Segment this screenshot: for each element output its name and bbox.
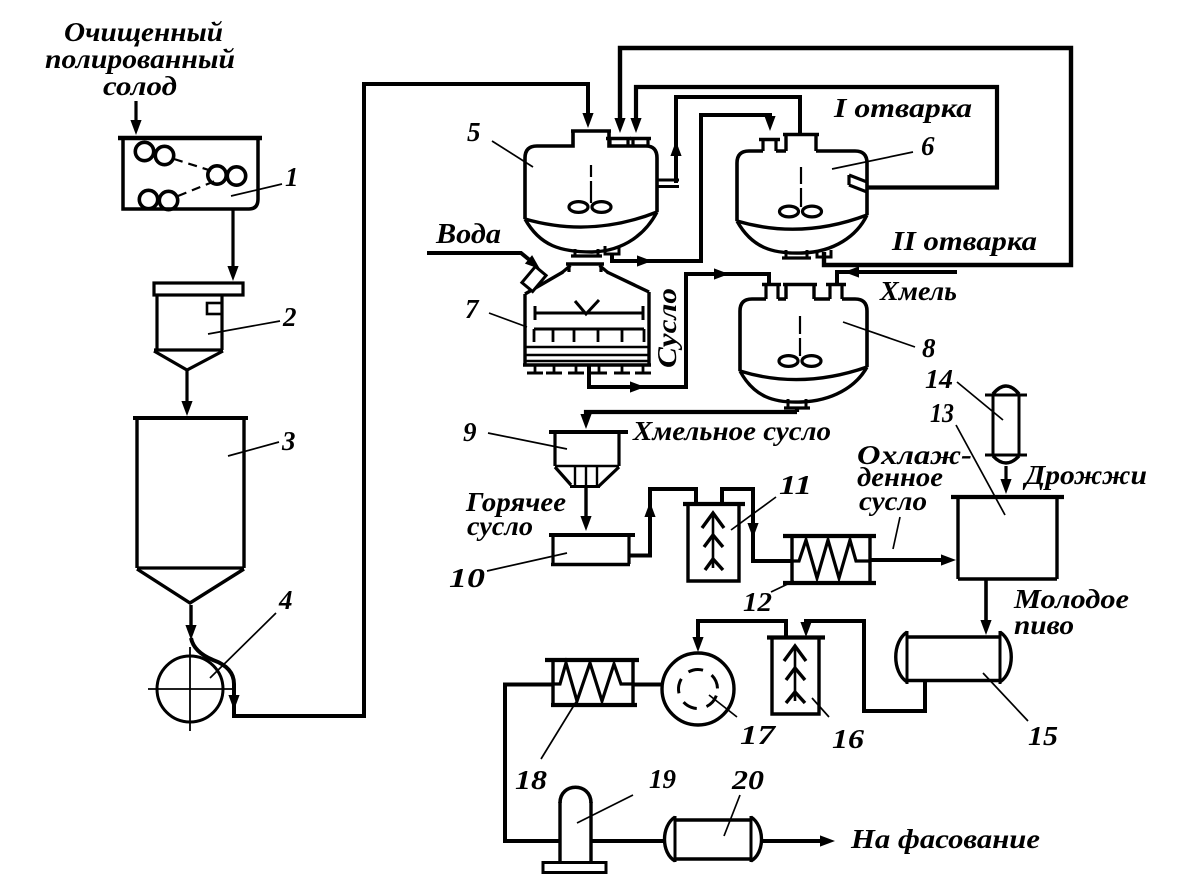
carbonator 19: [543, 787, 606, 872]
agitator of vessel 5: [569, 165, 611, 212]
label 9 with leader: [463, 417, 567, 449]
label 12 with leader: [743, 581, 794, 617]
label 18 with leader: [515, 702, 576, 795]
svg-text:полированный: полированный: [45, 44, 235, 74]
wire: II отварка loop (vessel 6 bottom to vessel 5 nozzle): [614, 48, 1071, 265]
svg-text:Сусло: Сусло: [652, 288, 682, 368]
svg-text:5: 5: [467, 117, 481, 147]
hopped wort kettle 8 body: [740, 285, 867, 409]
svg-text:Вода: Вода: [435, 219, 501, 250]
wire: vessel 5 bottom outlet up to vessel 6 left nozzle: [612, 115, 776, 267]
malt bin tank 3: [133, 418, 248, 603]
svg-text:II отварка: II отварка: [891, 226, 1037, 256]
label 11 with leader: [731, 470, 812, 530]
label 1 with leader: [231, 162, 299, 196]
wire: tank 3 through pump 4, bottom run and left riser into vessel 5 neck: [185, 84, 593, 716]
svg-text:9: 9: [463, 417, 477, 447]
wire: separator 9 to collector 10: [580, 488, 591, 531]
wire: hopper 2 to tank 3: [181, 370, 192, 416]
label: II отварка: [891, 226, 1037, 256]
svg-text:12: 12: [743, 587, 772, 617]
label 10 with leader: [449, 553, 567, 593]
svg-text:18: 18: [515, 765, 548, 795]
pump 16: [767, 637, 825, 714]
wire: tank 15 to pump 16: [800, 621, 925, 711]
wire: pump 16 to filter 17: [692, 621, 786, 652]
wire: Хмель (hops) feed into vessel 8 right nozzle: [837, 266, 957, 283]
svg-text:Хмельное сусло: Хмельное сусло: [632, 416, 831, 446]
wire: vessel 8 bottom to hop separator 9: [580, 408, 797, 429]
wire: fermenter 13 to lager tank 15 (young beer): [980, 579, 991, 635]
label 3 with leader: [228, 426, 296, 456]
svg-text:14: 14: [925, 364, 953, 394]
wire: Вода (water) feed into filter 7: [427, 253, 544, 273]
label 13 with leader: [930, 398, 1005, 515]
lager tank 15: [896, 631, 1012, 684]
weighing hopper 2: [154, 283, 243, 370]
svg-text:пиво: пиво: [1014, 610, 1074, 640]
label: Очищенный полированный солод: [45, 17, 235, 101]
label: Сусло (rotated): [652, 288, 682, 368]
separator filter 17: [662, 653, 734, 725]
pump 11: [683, 504, 745, 581]
svg-text:сусло: сусло: [859, 486, 927, 516]
pump 4 (circle with crosshair): [148, 647, 232, 731]
label: Горячее сусло: [465, 487, 566, 541]
label 8 with leader: [843, 322, 936, 363]
svg-text:17: 17: [740, 720, 777, 750]
yeast vessel 14: [985, 386, 1027, 463]
svg-text:солод: солод: [103, 71, 177, 101]
finished beer tank 20: [665, 816, 762, 862]
svg-text:20: 20: [731, 765, 765, 795]
wort cooler 12: [783, 536, 876, 583]
label: Вода: [435, 219, 501, 250]
svg-text:I отварка: I отварка: [833, 93, 972, 123]
boiling kettle 6 body: [737, 135, 867, 259]
svg-text:сусло: сусло: [467, 511, 533, 541]
svg-text:Хмель: Хмель: [879, 276, 957, 306]
label 20 with leader: [724, 765, 765, 836]
svg-text:Дрожжи: Дрожжи: [1022, 460, 1147, 490]
svg-text:8: 8: [922, 333, 936, 363]
label: Хмельное сусло: [632, 416, 831, 446]
wire: yeast vessel 14 into fermenter 13: [1000, 466, 1011, 494]
wire: carbonator 19 to tank 20: [591, 839, 663, 843]
mash tun 5 body: [525, 131, 657, 256]
lauter filter 7: [522, 264, 651, 373]
wire: Сусло line from filter 7 to vessel 8 left nozzle: [589, 268, 769, 392]
agitator of vessel 8: [779, 316, 821, 366]
wire: I отварка loop (vessel 6 spout to vessel 5 nozzle): [630, 87, 997, 188]
label: I отварка: [833, 93, 972, 123]
svg-text:4: 4: [278, 585, 293, 615]
agitator of vessel 6: [780, 167, 822, 217]
label 16 with leader: [812, 698, 865, 754]
svg-text:11: 11: [779, 470, 812, 500]
svg-text:6: 6: [921, 131, 935, 161]
wire: collector 10 to pump 11: [629, 489, 696, 556]
hot wort collector 10: [549, 535, 635, 565]
label: Хмель: [879, 276, 957, 306]
label 2 with leader: [208, 302, 297, 334]
svg-text:На фасование: На фасование: [850, 824, 1040, 854]
label: Молодое пиво: [1013, 584, 1129, 640]
wire: mill 1 to hopper 2: [227, 210, 238, 281]
svg-text:3: 3: [281, 426, 296, 456]
fermenter tank 13: [951, 497, 1064, 579]
svg-text:Очищенный: Очищенный: [64, 17, 223, 47]
svg-text:13: 13: [930, 398, 954, 428]
label: Дрожжи: [1022, 460, 1147, 490]
label 15 with leader: [983, 673, 1058, 751]
svg-text:15: 15: [1028, 721, 1058, 751]
svg-text:1: 1: [285, 162, 299, 192]
wire: heat exchanger 18 down and to carbonator 19: [505, 685, 560, 842]
svg-text:7: 7: [465, 294, 480, 324]
label 14 with leader: [925, 364, 1003, 420]
hop separator 9: [549, 432, 628, 487]
label 17 with leader: [709, 695, 777, 750]
svg-text:19: 19: [649, 764, 677, 794]
label 19 with leader: [577, 764, 677, 823]
wire: filter 17 to heat exchanger 18: [634, 683, 662, 687]
label 6 with leader: [832, 131, 935, 169]
label 5 with leader: [467, 117, 533, 167]
roller mill 1: [118, 138, 262, 210]
wire: malt feed into mill 1: [130, 101, 141, 135]
wire: vessel 5 side outlet riser into vessel 6 neck: [656, 97, 800, 187]
wire: cooler 12 to fermenter 13 (cooled wort): [870, 554, 956, 565]
svg-text:2: 2: [282, 302, 297, 332]
wire: pump 11 to cooler 12: [722, 489, 791, 561]
svg-text:16: 16: [832, 724, 865, 754]
heat exchanger 18: [545, 660, 639, 705]
label: На фасование: [850, 824, 1040, 854]
label 7 with leader: [465, 294, 527, 327]
svg-text:10: 10: [449, 563, 486, 593]
label: Охлажденное сусло with leader: [857, 440, 972, 549]
label 4 with leader: [210, 585, 293, 678]
wire: tank 20 to packaging: [763, 835, 835, 846]
